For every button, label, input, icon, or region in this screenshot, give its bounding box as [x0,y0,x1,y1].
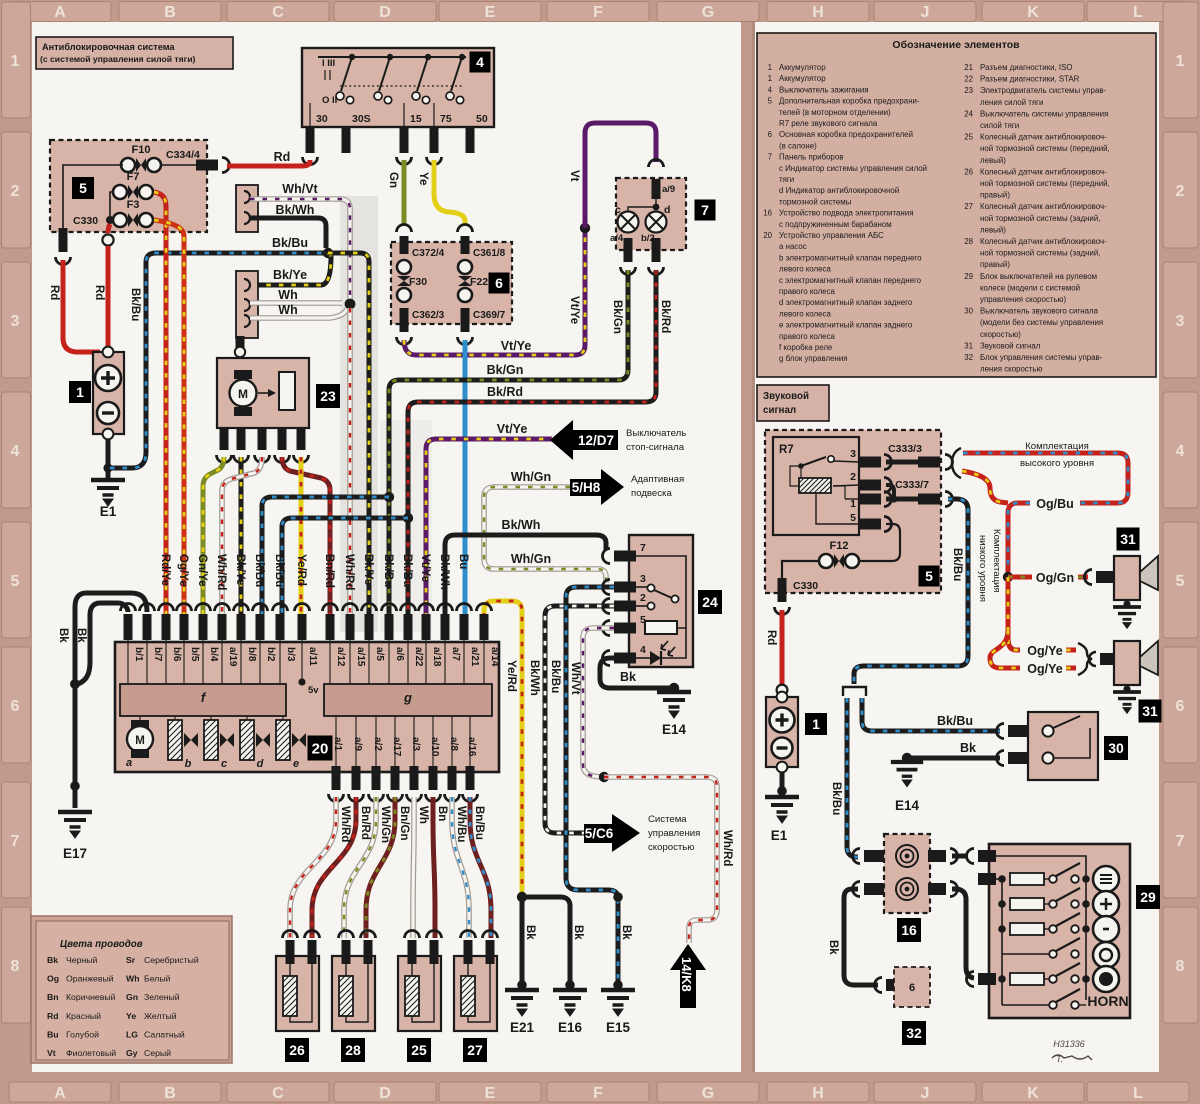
svg-text:31: 31 [1120,531,1136,547]
svg-text:G: G [702,4,714,21]
svg-text:Салатный: Салатный [144,1029,185,1039]
svg-text:Gn/Ye: Gn/Ye [196,554,208,587]
svg-text:Выключатель системы управления: Выключатель системы управления [980,109,1108,118]
fuse F3 [113,213,127,227]
svg-text:LG: LG [126,1029,138,1039]
svg-text:Bk/Gn: Bk/Gn [611,300,623,334]
wire Og/Ye upper to horn 31 lower [1008,577,1020,650]
svg-text:Колесный датчик антиблокировоч: Колесный датчик антиблокировоч- [980,167,1107,176]
3-pin connector box [236,271,258,338]
svg-text:F: F [593,1085,603,1102]
svg-text:стоп-сигнала: стоп-сигнала [626,442,685,453]
svg-text:16: 16 [763,209,772,218]
svg-text:29: 29 [1140,889,1156,905]
svg-text:Wh/Gn: Wh/Gn [511,552,551,566]
svg-text:7: 7 [701,202,709,218]
svg-text:Rd: Rd [47,1011,59,1021]
svg-text:B: B [164,1085,176,1102]
wire Bk/Wh a7 to box 24 pin 7 [445,535,606,630]
svg-text:Комплектация: Комплектация [991,529,1002,593]
svg-text:C333/3: C333/3 [888,443,922,455]
svg-text:a/14: a/14 [489,647,500,667]
wire Wh/Vt box24 pin5 to junction [583,628,614,777]
svg-text:6: 6 [768,130,773,139]
left white panel [32,22,741,1072]
svg-text:Rd: Rd [274,150,291,164]
svg-text:левого колеса: левого колеса [779,265,831,274]
svg-text:26: 26 [289,1042,305,1058]
relay R7 coil [799,478,831,493]
svg-text:C330: C330 [793,580,818,592]
svg-text:Bk/Wh: Bk/Wh [438,554,450,590]
svg-text:H: H [812,1085,824,1102]
svg-text:c: c [221,758,227,770]
arrow 5/C6 speed control [584,814,640,852]
svg-text:тяги: тяги [779,175,794,184]
box 24 pin 4 [614,653,636,664]
svg-text:высокого уровня: высокого уровня [1020,458,1094,469]
svg-text:Bk: Bk [620,670,636,684]
wire Bk to E21 [520,897,525,983]
svg-text:G: G [702,1085,714,1102]
svg-text:ления скоростью: ления скоростью [980,365,1043,374]
box 24 pin 5 [614,623,636,634]
wire Wh/Gn to 5/H8 and box 24 pin 3 [484,487,606,583]
svg-text:Wh/Rd: Wh/Rd [721,830,733,866]
svg-text:Bk/Bu: Bk/Bu [951,548,963,581]
wire Og/Gn to horn 31 upper [1008,575,1032,580]
svg-text:Разъем диагностики, ISO: Разъем диагностики, ISO [980,63,1073,72]
wire Bk/Wh from 2-pin connector to junction [250,218,326,248]
svg-text:Wh/Rd: Wh/Rd [339,806,351,842]
svg-text:D: D [379,1085,391,1102]
ground E1 (horn) [765,797,799,823]
svg-text:1: 1 [850,498,856,510]
connector C362/3 pin [400,308,409,332]
svg-text:Vt/Ye: Vt/Ye [501,339,532,353]
svg-text:25: 25 [411,1042,427,1058]
svg-text:правого колеса: правого колеса [779,332,836,341]
ignition switch 4 box [302,48,494,127]
svg-text:a/6: a/6 [394,647,405,661]
svg-text:J: J [921,4,930,21]
svg-text:Электродвигатель системы управ: Электродвигатель системы управ- [980,86,1107,95]
wire Rd C330 to battery [63,260,100,352]
svg-text:Оранжевый: Оранжевый [66,974,114,984]
svg-text:5: 5 [1176,573,1185,590]
svg-text:a: a [126,757,132,769]
wire Wh upper [250,300,342,306]
svg-text:5v: 5v [308,685,319,696]
svg-text:F: F [593,4,603,21]
wheel sensor 27 label [463,1038,487,1062]
svg-text:Колесный датчик антиблокировоч: Колесный датчик антиблокировоч- [980,133,1107,142]
svg-text:A: A [54,4,66,21]
wheel sensor 28 label [341,1038,365,1062]
svg-text:Цвета проводов: Цвета проводов [60,939,143,950]
wire Wh/Vt from 2-pin connector [250,199,350,299]
relay R7 pin 1 [859,494,881,505]
horn 31 lower label [1139,700,1162,723]
svg-text:C330: C330 [73,215,98,227]
svg-text:Og/Ye: Og/Ye [1027,662,1062,676]
junction dot a6 branch [384,492,394,502]
svg-text:6: 6 [11,698,20,715]
svg-text:HORN: HORN [1087,993,1128,1009]
svg-text:Зеленый: Зеленый [144,992,180,1002]
svg-text:c Индикатор системы управления: c Индикатор системы управления силой [779,164,927,173]
svg-text:левого колеса: левого колеса [779,309,831,318]
svg-text:1: 1 [11,53,20,70]
svg-text:1: 1 [768,74,772,83]
svg-text:с подпружиненным барабаном: с подпружиненным барабаном [779,220,892,229]
wire Bk/Gn lamp c to junction and b2/a6 [389,270,628,630]
box 24 LED [636,657,650,659]
svg-text:30: 30 [1108,740,1124,756]
ignition pin 50 [466,127,475,153]
svg-text:D: D [379,4,391,21]
svg-text:b/7: b/7 [152,647,163,662]
svg-text:Ye: Ye [126,1011,136,1021]
svg-text:a/11: a/11 [307,647,318,666]
svg-text:L: L [1133,4,1143,21]
svg-text:ления силой тяги: ления силой тяги [980,98,1043,107]
svg-text:тормозной системы: тормозной системы [779,197,852,206]
svg-text:Аккумулятор: Аккумулятор [779,74,826,83]
relay R7 switch [798,463,804,469]
connector link to motor box 23 [236,336,245,348]
svg-text:5: 5 [850,512,856,524]
svg-text:Vt: Vt [47,1048,56,1058]
right white panel [755,22,1159,1072]
svg-text:R7: R7 [779,444,794,456]
box 16 label [897,918,921,942]
wheel sensor 25 label [407,1038,431,1062]
wire Og/Ye fuse F3 to b5 [154,220,184,630]
battery 1 label [69,381,91,403]
svg-text:a/19: a/19 [227,647,238,667]
colour code legend box [31,916,232,1063]
svg-text:2: 2 [11,183,20,200]
svg-text:b/4: b/4 [208,647,219,662]
svg-text:29: 29 [964,272,973,281]
svg-text:Bk: Bk [47,955,58,965]
wire Bk box16 to control unit 32 [844,889,878,985]
ignition pin 30 [306,127,315,153]
junction dot horn feed [1003,572,1013,582]
svg-text:ной тормозной системы (задний,: ной тормозной системы (задний, [980,249,1100,258]
junction dot Wh wires [345,299,356,310]
svg-text:E1: E1 [771,828,788,843]
motor box 23 [217,358,309,428]
svg-text:Bk/Bu: Bk/Bu [129,288,141,321]
svg-text:Rd: Rd [93,285,105,300]
svg-text:Gn: Gn [126,992,138,1002]
svg-text:Bk/Rd: Bk/Rd [659,300,671,333]
svg-text:Vt/Ye: Vt/Ye [568,296,580,324]
svg-text:E16: E16 [558,1020,583,1035]
box 29 buttons [1093,866,1119,892]
svg-text:4: 4 [640,644,646,656]
svg-text:Аккумулятор: Аккумулятор [779,63,826,72]
connector C372/4 pin [397,225,412,233]
fuse link wires inside box 5 [110,192,114,220]
svg-text:Блок управления системы управ-: Блок управления системы управ- [980,353,1103,362]
horn title box [757,385,829,421]
svg-text:Выключатель зажигания: Выключатель зажигания [779,85,869,94]
svg-text:(с системой управления силой т: (с системой управления силой тяги) [40,54,195,64]
battery 1 (horn) [766,697,798,767]
svg-text:Bk: Bk [57,628,69,643]
box 20 relay bar f [120,684,286,716]
svg-text:Og/Bu: Og/Bu [1036,497,1074,511]
ground E14 (left diagram) [657,692,691,718]
svg-text:5: 5 [925,568,933,584]
svg-text:Og/Ye: Og/Ye [1027,644,1062,658]
svg-text:ной тормозной системы (задний,: ной тормозной системы (задний, [980,214,1100,223]
wire Rd/Ye fuse F7 to b6 [154,192,166,630]
svg-text:Vt: Vt [568,170,580,182]
svg-text:20: 20 [763,231,772,240]
wire box16 to box29 top [952,854,968,859]
svg-text:27: 27 [964,202,973,211]
svg-text:Устройство управления АБС: Устройство управления АБС [779,231,884,240]
svg-text:a/8: a/8 [448,737,459,751]
horn 31 upper label [1117,528,1140,551]
fuse F7 [113,185,127,199]
svg-text:Звуковой сигнал: Звуковой сигнал [980,341,1041,350]
relay R7 pin 3 [859,457,881,468]
svg-text:F10: F10 [132,144,151,156]
box 20 label [308,736,333,761]
svg-text:7: 7 [1176,833,1185,850]
svg-text:20: 20 [312,740,329,757]
svg-text:Bk/Bu: Bk/Bu [830,782,842,815]
svg-text:Bk/Gn: Bk/Gn [487,363,524,377]
svg-text:Обозначение элементов: Обозначение элементов [892,39,1020,51]
svg-text:Gy: Gy [126,1048,138,1058]
box 20 top pins [124,614,133,640]
wheel sensor 26 [283,931,298,938]
box 20 control bar g [324,684,492,716]
horn relay R7 [773,437,859,535]
svg-text:(в салоне): (в салоне) [779,141,817,150]
arrow 5/H8 adaptive suspension [570,469,624,505]
box 29 pins [978,850,996,862]
svg-text:T.: T. [1056,1054,1063,1064]
wire Bk branch to E16 [522,897,570,983]
svg-text:a/18: a/18 [431,647,442,667]
svg-text:Bk/Bu: Bk/Bu [549,660,561,693]
svg-text:Sr: Sr [126,955,136,965]
svg-text:75: 75 [440,113,452,125]
2-pin connector box [236,185,258,232]
wheel sensor wires from box 20 [290,797,336,938]
svg-text:Rd/Ye: Rd/Ye [159,554,171,586]
svg-text:24: 24 [702,594,718,610]
svg-text:R7 реле звукового сигнала: R7 реле звукового сигнала [779,119,878,128]
svg-text:J: J [921,1085,930,1102]
box 7 pin a/9 [652,179,661,199]
svg-text:скоростью: скоростью [648,842,695,853]
connector C369/7 pin [461,308,470,332]
svg-text:3: 3 [1176,313,1185,330]
fuse box 6 label [489,273,510,294]
fuse F30 [397,260,411,274]
svg-text:32: 32 [906,1025,922,1041]
svg-text:Bk/Bu: Bk/Bu [273,554,285,587]
svg-text:Фиолетовый: Фиолетовый [66,1048,116,1058]
wire Bk to horn switch 30 pin2 [902,753,912,763]
svg-text:телей (в моторном отделении): телей (в моторном отделении) [779,108,891,117]
arrow 12/D7 stop light switch [550,420,618,460]
svg-text:Bu: Bu [47,1029,59,1039]
svg-text:Разъем диагностики, STAR: Разъем диагностики, STAR [980,75,1080,84]
svg-text:Bk/Ye: Bk/Ye [273,268,307,282]
svg-text:I III: I III [322,58,335,69]
svg-text:Bn/Rd: Bn/Rd [359,806,371,840]
svg-text:левый): левый) [980,156,1006,165]
connector bracket pair [843,687,866,696]
svg-text:подвеска: подвеска [631,488,672,499]
wire Bk/Bu box24 pin3 to E15 [566,587,618,983]
svg-text:Блок выключателей на рулевом: Блок выключателей на рулевом [980,272,1097,281]
svg-text:Желтый: Желтый [144,1011,177,1021]
svg-text:12/D7: 12/D7 [578,433,614,448]
wire battery to ground E1 (horn) [780,772,785,795]
svg-text:28: 28 [345,1042,361,1058]
svg-text:b/6: b/6 [171,647,182,662]
legend box: oboznachenie elementov [757,33,1156,377]
svg-text:5: 5 [11,573,20,590]
fuse box 5 label [72,177,94,199]
wire pin2 and pin1 to C333/7 [886,485,894,497]
wire pin3 to C333/3 [886,460,918,465]
svg-text:b/1: b/1 [133,647,144,662]
svg-text:правый): правый) [980,260,1010,269]
box 7 label [695,200,716,221]
svg-text:E: E [485,4,496,21]
connector C333/3 split bracket [952,448,961,478]
svg-text:Колесный датчик антиблокировоч: Колесный датчик антиблокировоч- [980,237,1107,246]
svg-text:a/2: a/2 [372,737,383,751]
svg-text:b: b [185,758,192,770]
wire Vt/Ye a18 to stop light switch arrow [426,439,552,630]
svg-text:a/16: a/16 [466,737,477,757]
svg-text:F7: F7 [127,171,140,183]
svg-text:Белый: Белый [144,974,171,984]
wire Bn/Rd box23 pin4 to a12 [282,457,330,630]
speed control unit box 32 (dashed) [886,979,906,991]
svg-text:O II: O II [322,95,337,106]
svg-text:1: 1 [812,716,820,732]
shade band behind centre wires [340,196,378,632]
svg-text:15: 15 [410,113,422,125]
svg-text:23: 23 [964,86,973,95]
svg-text:Антиблокировочная система: Антиблокировочная система [42,42,175,52]
svg-text:5/C6: 5/C6 [585,826,614,841]
svg-text:Bn/Bu: Bn/Bu [473,806,485,840]
wheel sensor 25 [405,931,420,938]
svg-text:левый): левый) [980,225,1006,234]
svg-text:Выключатель звукового сигнала: Выключатель звукового сигнала [980,307,1099,316]
svg-text:L: L [1133,1085,1143,1102]
horn switch 30 label [1104,736,1128,760]
svg-text:d: d [664,204,670,216]
svg-text:C362/3: C362/3 [412,310,445,321]
box 16 pins [853,849,860,864]
junction dot E21 [517,892,527,902]
svg-text:E14: E14 [895,798,920,813]
svg-text:M: M [238,387,248,401]
svg-text:a/3: a/3 [410,737,421,751]
wire Ye/Rd a14 riser to E21 [484,601,522,893]
svg-text:Серебристый: Серебристый [144,955,199,965]
svg-text:Rd: Rd [48,285,60,300]
box 29 label [1136,885,1160,909]
wire Vt/Ye C362/3 to violet riser [404,231,585,355]
wire Gn/Ye box23 pin1 to b4 [203,457,224,630]
svg-text:5: 5 [79,180,87,196]
svg-text:Bk/Bu: Bk/Bu [382,554,394,587]
fuse box 5 (dashed) [50,140,207,232]
box 29 internals [992,856,1086,1000]
svg-text:Система: Система [648,814,687,825]
svg-text:2: 2 [640,592,646,604]
svg-text:Rd: Rd [765,630,777,645]
svg-text:b/8: b/8 [246,647,257,662]
svg-text:4: 4 [768,85,773,94]
ignition pin 75 [430,127,439,153]
svg-text:Bk/Wh: Bk/Wh [502,518,541,532]
svg-text:d: d [257,758,264,770]
svg-text:6: 6 [1176,698,1185,715]
instrument panel box 7 (dashed) [616,178,686,250]
svg-text:Bk: Bk [960,741,976,755]
svg-text:колесе (модели с системой: колесе (модели с системой [980,283,1080,292]
relay R7 pin 2 [859,480,881,491]
horn 31 upper [1096,571,1116,583]
ground E1 [91,480,125,506]
svg-text:22: 22 [964,75,973,84]
svg-text:Bk: Bk [572,925,584,940]
junction dot Bk/Bu-Bk/Wh [323,248,333,258]
fuse F22 [458,260,472,274]
svg-text:e: e [293,758,299,770]
connector C330 [63,165,123,228]
svg-text:Комплектация: Комплектация [1025,441,1089,452]
svg-text:Bk: Bk [620,925,632,940]
svg-text:Vt/Ye: Vt/Ye [419,554,431,582]
wire Rd ignition 30 to fuse box 5 [227,160,310,166]
svg-text:Bk/Bu: Bk/Bu [253,554,265,587]
svg-text:14/K8: 14/K8 [679,957,694,992]
svg-text:(модели без системы управления: (модели без системы управления [980,318,1103,327]
svg-text:A: A [54,1085,66,1102]
svg-text:C333/7: C333/7 [895,479,929,491]
svg-text:Bk: Bk [75,628,87,643]
svg-text:Vt/Ye: Vt/Ye [497,422,528,436]
box 7 pin b/2 [652,238,661,262]
svg-text:Wh/Rd: Wh/Rd [343,554,355,590]
svg-text:F30: F30 [409,276,427,288]
svg-text:Bk: Bk [524,925,536,940]
wire Bk/Wh box24 pin2 to arrow 5/C6 [545,606,614,833]
svg-text:Коричневый: Коричневый [66,992,116,1002]
svg-text:управления: управления [648,828,700,839]
junction dot E17 wires [70,679,80,689]
svg-text:Bn/Gn: Bn/Gn [398,806,410,841]
